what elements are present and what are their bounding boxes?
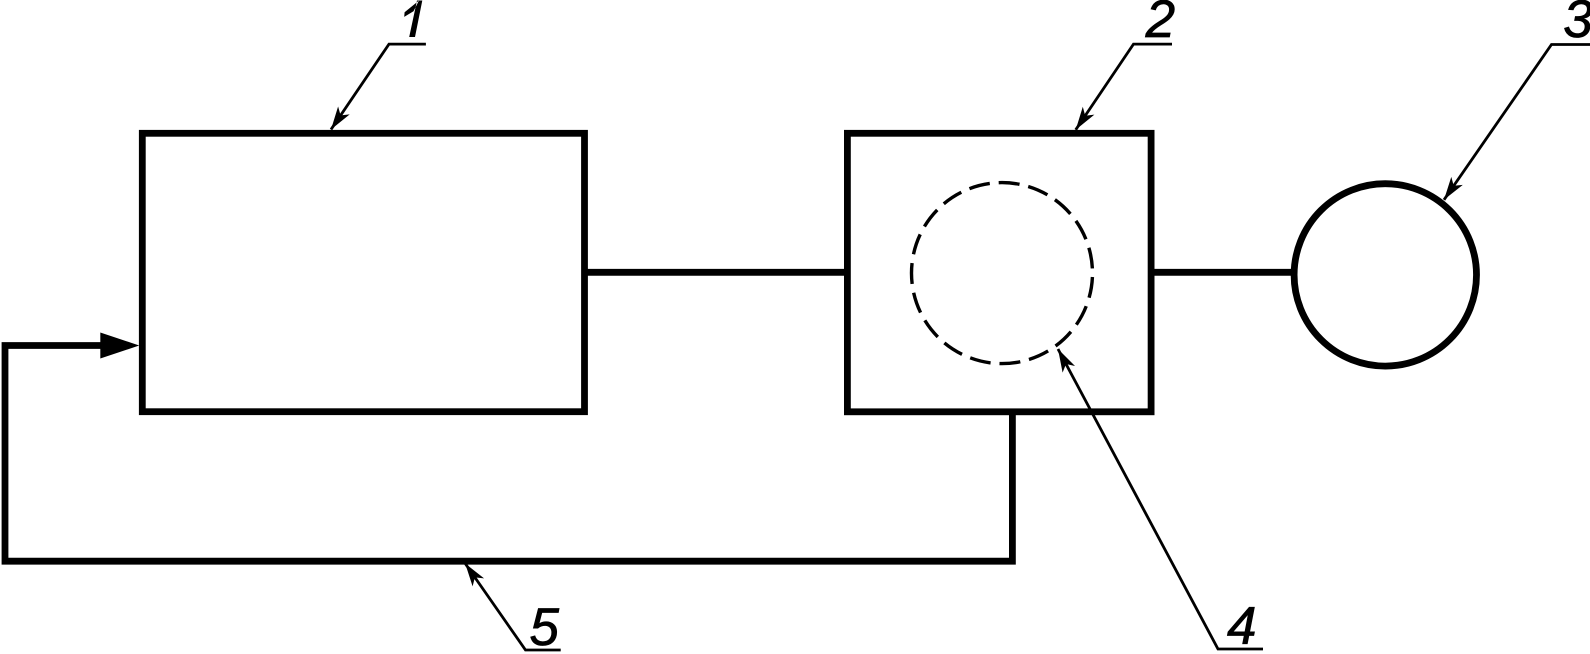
leader line for label 3	[1444, 45, 1590, 200]
arrowhead of leader 5	[465, 564, 484, 587]
leader line for label 1	[331, 44, 426, 129]
block 1 (left rectangle)	[142, 133, 584, 411]
wire: block 2 to circle 3	[1151, 269, 1296, 276]
block 2 (square)	[847, 133, 1151, 412]
arrowhead of leader 3	[1444, 177, 1463, 200]
feedback arrowhead into block 1	[100, 333, 139, 359]
leader line for label 4	[1058, 349, 1263, 649]
svg-text:4: 4	[1227, 597, 1256, 654]
feedback wire 5: from block 2 bottom, down, left, up, into block 1	[5, 346, 1012, 562]
svg-text:5: 5	[529, 598, 559, 654]
svg-text:3: 3	[1563, 0, 1590, 49]
label 1 (custom italic digit, no foot)	[404, 1, 422, 38]
svg-text:2: 2	[1145, 0, 1175, 49]
leader line for label 5	[465, 564, 561, 651]
arrowhead of leader 1	[331, 107, 350, 130]
circle 3 (indicator)	[1294, 184, 1476, 366]
leader line for label 2	[1076, 44, 1172, 130]
dashed circle 4 (inside block 2)	[912, 183, 1093, 364]
arrowhead of leader 2	[1076, 107, 1095, 130]
wire: block 1 to block 2	[584, 269, 848, 276]
arrowhead of leader 4	[1058, 349, 1075, 373]
